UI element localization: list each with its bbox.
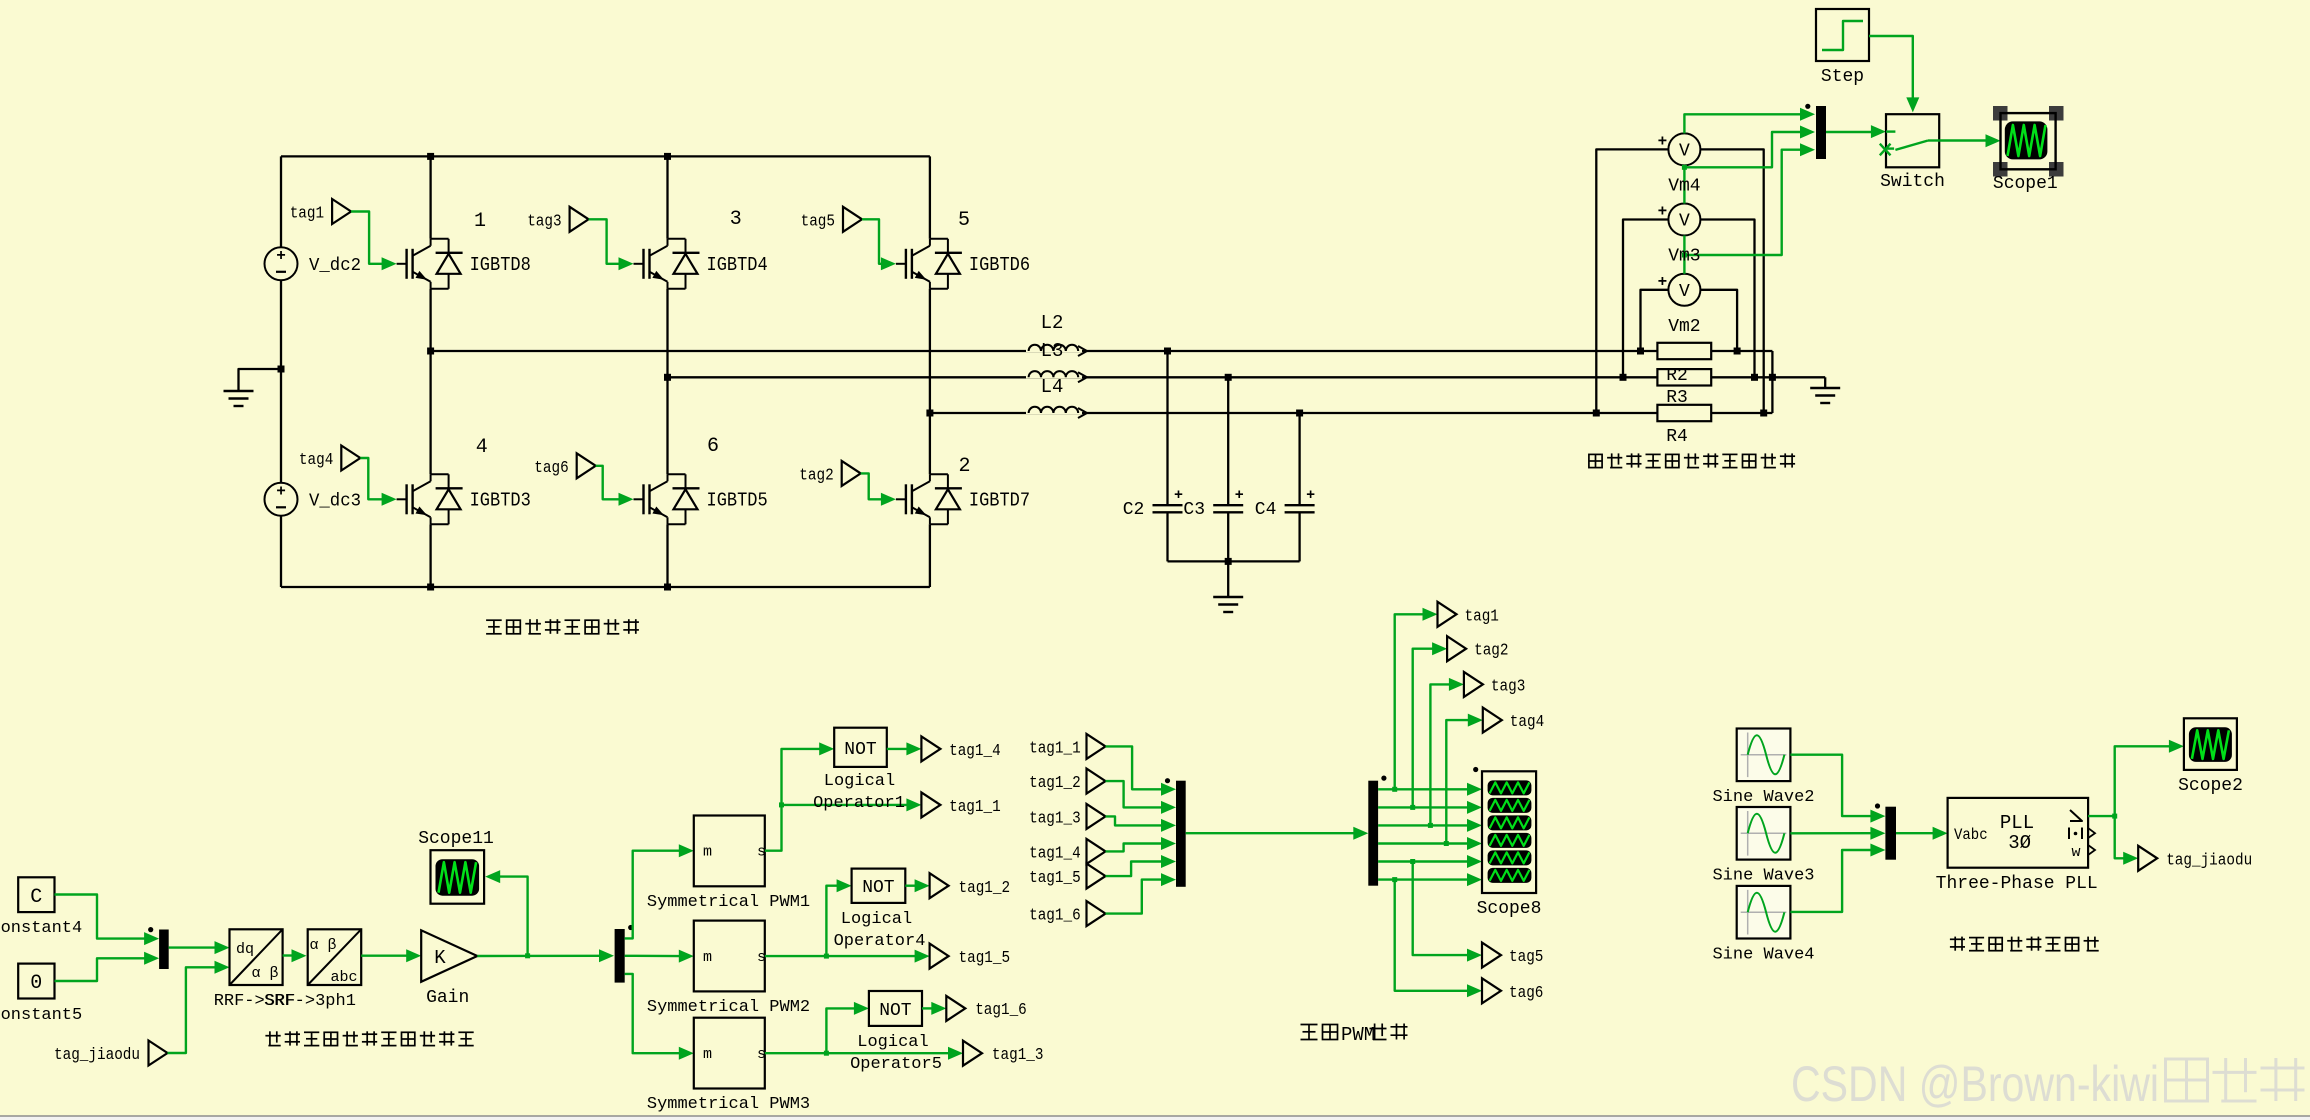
svg-text:Operator1: Operator1 <box>813 794 905 813</box>
svg-text:tag5: tag5 <box>1509 948 1543 967</box>
wire Gain to demux with Scope11 branch <box>477 870 614 962</box>
svg-text:IGBTD7: IGBTD7 <box>969 489 1030 511</box>
svg-text:Vm3: Vm3 <box>1668 247 1700 267</box>
transistor IGBTD4 (IGBT with antiparallel diode) <box>634 239 768 289</box>
wire C4 upper lead <box>1298 413 1300 505</box>
svg-text:Logical: Logical <box>857 1033 928 1052</box>
scope Scope11 <box>418 829 494 904</box>
svg-text:m: m <box>703 844 712 861</box>
svg-text:NOT: NOT <box>844 740 877 760</box>
wire NOT4 to tag1_2 <box>905 879 929 892</box>
wire leg A lower <box>429 524 431 587</box>
svg-text:tag1: tag1 <box>290 205 324 224</box>
wire demux to scope8 line 2 <box>1378 801 1482 814</box>
node Vm2 positive tap <box>1637 348 1644 355</box>
svg-text:C3: C3 <box>1183 500 1205 520</box>
wire demux to scope8 line 4 <box>1378 837 1482 850</box>
goto tag tag1_3 <box>963 1041 1044 1066</box>
demux three phase reference <box>615 929 625 983</box>
logic block NOT Logical Operator4 <box>834 869 926 951</box>
wire RRF-SRF to SRF-3ph <box>283 949 307 962</box>
transistor IGBTD3 (IGBT with antiparallel diode) <box>397 474 531 524</box>
wire Vm2 positive lead <box>1641 290 1669 351</box>
svg-text:CSDN @Brown-kiwi: CSDN @Brown-kiwi <box>1791 1056 2159 1112</box>
node bottom rail leg B junction <box>664 584 671 591</box>
ground capacitor bank <box>1213 597 1243 612</box>
voltmeter Vm2 <box>1658 273 1701 306</box>
wire tag1_2 to pwm mux <box>1106 781 1177 814</box>
from tag tag1_4 <box>1029 839 1105 864</box>
svg-text:1: 1 <box>474 210 486 233</box>
svg-text:L2: L2 <box>1041 312 1064 334</box>
label pulse number 1 for IGBTD8 <box>474 210 486 233</box>
wire gate drive tag5 to IGBT <box>862 219 896 270</box>
node capacitor C3 tap <box>1225 374 1232 381</box>
goto tag tag4 <box>1483 708 1544 733</box>
from tag tag2 (gate pulse source) <box>799 461 860 486</box>
svg-text:tag1_2: tag1_2 <box>959 879 1011 898</box>
node annotation dot above dq mux <box>148 927 153 932</box>
svg-text:IGBTD5: IGBTD5 <box>707 489 768 511</box>
from tag tag6 (gate pulse source) <box>534 453 595 478</box>
wire phase B after R3 <box>1711 376 1825 378</box>
wire gate drive tag6 to IGBT <box>596 466 634 506</box>
goto tag tag1_5 <box>930 944 1011 969</box>
source block Sine Wave4 <box>1712 886 1814 964</box>
svg-text:Logical: Logical <box>841 910 912 929</box>
label resistor R3 <box>1666 388 1688 408</box>
svg-text:Symmetrical PWM3: Symmetrical PWM3 <box>647 1095 810 1114</box>
svg-text:Sine Wave3: Sine Wave3 <box>1712 866 1814 885</box>
wire gate drive tag4 to IGBT <box>360 458 396 506</box>
inductor L4 <box>1026 376 1087 418</box>
node bottom rail leg A junction <box>427 584 434 591</box>
svg-text:L4: L4 <box>1041 376 1064 398</box>
resistor R4 <box>1657 405 1711 421</box>
svg-text:+: + <box>1235 487 1244 504</box>
wire leg C mid <box>929 289 931 475</box>
wire left DC rail middle <box>280 280 282 483</box>
svg-text:Operator4: Operator4 <box>834 932 926 951</box>
wire mux to RRF-SRF <box>169 941 230 954</box>
from tag tag1_3 <box>1029 804 1105 829</box>
gain block Gain K <box>421 930 477 1008</box>
svg-text:s: s <box>757 1046 766 1063</box>
svg-text:+: + <box>1306 487 1315 504</box>
subsystem block Symmetrical PWM2 <box>647 921 810 1018</box>
node annotation dot demux <box>628 925 633 930</box>
logic block NOT Logical Operator5 <box>850 991 942 1074</box>
wire gate drive tag3 to IGBT <box>589 219 634 270</box>
svg-text:Scope1: Scope1 <box>1993 174 2058 194</box>
svg-text:tag2: tag2 <box>1474 642 1508 661</box>
node Vm3 positive tap <box>1620 374 1627 381</box>
inductor L3 <box>1026 340 1087 382</box>
scope Scope2 <box>2178 718 2243 796</box>
svg-text:L3: L3 <box>1041 340 1064 362</box>
svg-text:+: + <box>1658 203 1668 221</box>
label voltmeter Vm2 <box>1668 317 1700 337</box>
svg-text:SRF->3ph1: SRF->3ph1 <box>264 992 356 1011</box>
svg-text:IGBTD8: IGBTD8 <box>470 254 531 276</box>
label voltmeter Vm4 <box>1668 176 1700 196</box>
wire mux to Switch <box>1826 125 1886 138</box>
block Three-Phase PLL <box>1936 798 2098 894</box>
block SRF-3ph1 (alpha-beta to abc) <box>264 929 361 1011</box>
wire capacitor common rail <box>1168 560 1300 562</box>
svg-text:IGBTD6: IGBTD6 <box>969 254 1030 276</box>
wire PLL output with branches <box>2088 740 2184 865</box>
svg-text:tag6: tag6 <box>1509 984 1543 1003</box>
svg-text:m: m <box>703 949 712 966</box>
svg-text:3: 3 <box>730 208 742 231</box>
node Vm4 positive tap <box>1593 410 1600 417</box>
node annotation dot above pwm mux <box>1165 778 1170 783</box>
goto tag tag5 <box>1482 943 1543 968</box>
wire Vm3 negative lead <box>1700 220 1754 378</box>
wire neutral to ground <box>1824 377 1826 388</box>
from tag tag3 (gate pulse source) <box>527 207 588 232</box>
svg-text:R4: R4 <box>1666 427 1688 447</box>
svg-text:IGBTD3: IGBTD3 <box>470 489 531 511</box>
svg-text:4: 4 <box>476 436 488 459</box>
capacitor C3 <box>1183 487 1243 520</box>
transistor IGBTD7 (IGBT with antiparallel diode) <box>896 474 1030 524</box>
node capacitor C4 tap <box>1296 410 1303 417</box>
svg-text:Constant4: Constant4 <box>0 919 82 938</box>
wire left DC rail lower <box>280 516 282 587</box>
svg-text:tag1_5: tag1_5 <box>959 949 1011 968</box>
svg-text:+: + <box>1658 132 1668 150</box>
node top rail leg B junction <box>664 153 671 160</box>
node Vm2 negative tap <box>1734 348 1741 355</box>
wire demux to scope8 line 1 <box>1378 783 1482 796</box>
svg-text:tag_jiaodu: tag_jiaodu <box>2166 852 2252 871</box>
svg-text:Gain: Gain <box>426 988 469 1008</box>
svg-text:+: + <box>1658 273 1668 291</box>
label pulse number 3 for IGBTD4 <box>730 208 742 231</box>
transistor IGBTD5 (IGBT with antiparallel diode) <box>634 474 768 524</box>
svg-text:tag1_3: tag1_3 <box>1029 809 1081 828</box>
node annotation dot above mux <box>1805 104 1810 109</box>
svg-text:C4: C4 <box>1255 500 1277 520</box>
wire C4 lower lead <box>1298 512 1300 561</box>
voltmeter Vm4 <box>1658 132 1701 165</box>
block Constant4 <box>0 877 82 938</box>
node phase A tap at leg A <box>427 348 434 355</box>
wire Constant4 to mux <box>55 895 160 946</box>
mux dq reference <box>159 930 169 970</box>
wire tag1_1 to pwm mux <box>1106 746 1177 795</box>
wire leg C lower <box>929 524 931 587</box>
wire NOT5 to tag1_6 <box>922 1002 946 1015</box>
svg-text:Scope2: Scope2 <box>2178 776 2243 796</box>
svg-text:α β: α β <box>251 965 278 982</box>
wire demux to scope8 line 3 <box>1378 819 1482 832</box>
svg-text:tag1_5: tag1_5 <box>1029 869 1081 888</box>
goto tag tag1_1 <box>921 792 1000 817</box>
svg-text:tag5: tag5 <box>801 212 835 231</box>
from tag tag1_2 <box>1029 769 1105 794</box>
wire gate drive tag1 to IGBT <box>351 212 397 271</box>
wire C3 upper lead <box>1227 377 1229 505</box>
wire branch to tag3 <box>1430 678 1464 826</box>
wire leg A mid <box>429 289 431 475</box>
svg-text:α β: α β <box>309 937 336 954</box>
svg-text:tag1_4: tag1_4 <box>949 742 1001 761</box>
svg-text:dq: dq <box>236 941 254 958</box>
wire phase A after R2 <box>1711 350 1772 352</box>
from tag tag1_6 <box>1029 901 1105 926</box>
wire branch to tag5 <box>1413 862 1482 962</box>
wire phase B output <box>668 376 1658 378</box>
label pulse number 4 for IGBTD3 <box>476 436 488 459</box>
wire left DC rail upper <box>280 156 282 247</box>
watermark CSDN <box>1791 1056 2305 1112</box>
node phase C tap at leg C <box>926 410 933 417</box>
svg-text:tag1_4: tag1_4 <box>1029 844 1081 863</box>
node annotation dot above pll mux <box>1875 803 1880 808</box>
svg-text:Sine Wave2: Sine Wave2 <box>1712 788 1814 807</box>
wire PWM2 output with branches <box>765 879 930 962</box>
svg-text:abc: abc <box>330 969 357 986</box>
svg-text:w: w <box>2071 844 2080 861</box>
demux pwm signals <box>1368 781 1378 886</box>
wire leg B lower <box>666 524 668 587</box>
wire phase A output <box>431 350 1658 352</box>
subsystem block Symmetrical PWM1 <box>647 816 810 913</box>
ground left DC midpoint <box>224 391 254 406</box>
wire demux to scope8 line 5 <box>1378 855 1482 868</box>
wire PWM1 output with branches <box>765 742 922 850</box>
wire pll mux to Three-Phase PLL <box>1896 827 1948 840</box>
mux pwm signals <box>1176 781 1186 887</box>
wire Vm4 negative lead <box>1700 149 1763 413</box>
svg-text:s: s <box>757 949 766 966</box>
svg-text:s: s <box>757 844 766 861</box>
wire Step to Switch <box>1869 36 1919 112</box>
voltage source V_dc3 <box>265 482 362 516</box>
svg-text:PWM: PWM <box>1341 1024 1375 1046</box>
svg-text:Operator5: Operator5 <box>850 1055 942 1074</box>
wire branch to tag4 <box>1446 714 1483 844</box>
goto tag tag1_2 <box>930 873 1011 898</box>
node neutral-phaseB junction <box>1769 374 1776 381</box>
wire branch to tag1 <box>1395 608 1438 790</box>
svg-text:m: m <box>703 1046 712 1063</box>
wire tag_jiaodu to RRF-SRF <box>168 961 230 1053</box>
svg-text:K: K <box>434 947 446 969</box>
svg-text:0: 0 <box>30 972 42 995</box>
svg-text:V: V <box>1679 212 1690 232</box>
node capacitor neutral junction <box>1225 558 1232 565</box>
goto tag tag2 <box>1447 636 1508 661</box>
caption PLL generates rotation angle <box>1950 937 2099 951</box>
from tag tag4 (gate pulse source) <box>299 446 360 471</box>
wire tag1_6 to pwm mux <box>1106 873 1177 914</box>
svg-text:Switch: Switch <box>1880 172 1945 192</box>
wire C3 lower lead <box>1227 512 1229 561</box>
wire demux out1 to PWM1 <box>625 844 694 938</box>
label resistor R2 <box>1666 366 1688 386</box>
svg-text:tag6: tag6 <box>534 459 568 478</box>
wire star neutral vertical <box>1771 351 1773 413</box>
node top rail leg A junction <box>427 153 434 160</box>
wire NOT1 to tag1_4 <box>887 742 922 755</box>
wire PWM3 output with branches <box>765 1002 963 1060</box>
mux voltage signals <box>1816 106 1826 159</box>
svg-text:Three-Phase PLL: Three-Phase PLL <box>1936 874 2098 894</box>
node phase B tap at leg B <box>664 374 671 381</box>
wire phase C output <box>930 412 1658 414</box>
wire leg B upper <box>666 156 668 238</box>
wire C2 upper lead <box>1166 351 1168 505</box>
svg-text:NOT: NOT <box>862 878 895 898</box>
wire Vm4 signal to mux input 1 <box>1684 108 1815 134</box>
wire Switch to Scope1 <box>1939 134 2000 147</box>
svg-text:tag1_6: tag1_6 <box>1029 907 1081 926</box>
goto tag tag_jiaodu <box>2138 846 2252 871</box>
goto tag tag1 <box>1438 602 1499 627</box>
window bottom edge strip <box>0 1116 2310 1120</box>
logic block NOT Logical Operator1 <box>813 728 905 813</box>
wire branch to tag6 <box>1395 880 1482 998</box>
svg-text:Scope8: Scope8 <box>1477 899 1542 919</box>
wire pwm mux to demux <box>1186 827 1369 840</box>
svg-text:IGBTD4: IGBTD4 <box>707 254 768 276</box>
svg-text:Scope11: Scope11 <box>418 829 494 849</box>
svg-text:V_dc2: V_dc2 <box>309 256 361 276</box>
wire Vm4 positive lead <box>1596 149 1668 413</box>
svg-text:tag4: tag4 <box>1510 713 1544 732</box>
svg-text:+: + <box>276 247 286 265</box>
svg-text:3Ø: 3Ø <box>2008 832 2031 854</box>
wire tag1_3 to pwm mux <box>1106 816 1177 832</box>
caption three-phase inverter main circuit <box>486 619 639 634</box>
wire C2 lower lead <box>1166 512 1168 561</box>
svg-text:tag_jiaodu: tag_jiaodu <box>54 1046 140 1065</box>
scope Scope1 (selected) <box>1993 106 2064 194</box>
node Vm4 negative tap <box>1760 410 1767 417</box>
svg-text:tag1_1: tag1_1 <box>949 798 1001 817</box>
source block Sine Wave2 <box>1712 729 1814 807</box>
voltage source V_dc2 <box>265 247 362 281</box>
svg-text:Sine Wave4: Sine Wave4 <box>1712 945 1814 964</box>
svg-text:tag2: tag2 <box>799 466 833 485</box>
svg-text:V_dc3: V_dc3 <box>309 491 361 511</box>
svg-text:C2: C2 <box>1123 500 1145 520</box>
wire demux out3 to PWM3 <box>625 974 694 1060</box>
svg-text:5: 5 <box>958 209 970 232</box>
wire tag1_4 to pwm mux <box>1106 837 1177 851</box>
wire gate drive tag2 to IGBT <box>861 473 896 505</box>
node DC midpoint junction <box>278 366 285 373</box>
label pulse number 5 for IGBTD6 <box>958 209 970 232</box>
subsystem block Symmetrical PWM3 <box>647 1018 810 1114</box>
from tag tag1 (gate pulse source) <box>290 199 351 224</box>
caption observe inverter output waveform <box>1589 453 1795 467</box>
svg-text:Constant5: Constant5 <box>0 1006 82 1025</box>
block Step <box>1816 9 1869 87</box>
from tag tag1_1 <box>1029 734 1105 759</box>
svg-text:PLL: PLL <box>2000 812 2034 834</box>
capacitor C2 <box>1123 487 1183 520</box>
svg-text:V: V <box>1679 282 1690 302</box>
capacitor C4 <box>1255 487 1315 520</box>
ground load neutral <box>1810 388 1840 403</box>
wire Sine Wave2 to pll mux <box>1790 755 1885 823</box>
wire Vm3 positive lead <box>1623 220 1668 378</box>
wire Sine Wave3 to pll mux <box>1790 827 1885 840</box>
label voltmeter Vm3 <box>1668 247 1700 267</box>
scope Scope8 <box>1477 771 1542 919</box>
svg-text:tag3: tag3 <box>527 212 561 231</box>
svg-text:tag1_3: tag1_3 <box>992 1046 1044 1065</box>
wire bottom DC bus rail <box>281 586 930 588</box>
svg-text:tag1_6: tag1_6 <box>975 1001 1027 1020</box>
svg-text:tag1: tag1 <box>1465 607 1499 626</box>
svg-text:+: + <box>276 482 286 500</box>
wire to left ground <box>239 369 282 391</box>
wire Vm2 negative lead <box>1700 290 1737 351</box>
wire Vm3-Vm2 chain with branch to mux input 3 <box>1682 143 1815 274</box>
goto tag tag1_6 <box>946 996 1027 1021</box>
label pulse number 6 for IGBTD5 <box>707 435 719 458</box>
node annotation dot above pwm demux <box>1381 776 1386 781</box>
caption observe PWM waveform <box>1301 1024 1408 1047</box>
block Switch <box>1880 114 1945 192</box>
resistor R3 <box>1657 369 1711 385</box>
svg-text:Vm4: Vm4 <box>1668 176 1700 196</box>
wire Vm4-Vm3 chain with branch to mux input 2 <box>1682 126 1815 204</box>
block RRF-SRF (dq to alpha-beta) <box>214 929 296 1011</box>
wire leg C upper <box>929 156 931 238</box>
wire demux out2 to PWM2 <box>625 950 694 963</box>
mux pll input <box>1885 807 1896 860</box>
from tag tag5 (gate pulse source) <box>801 207 862 232</box>
wire capacitor neutral to ground <box>1227 561 1229 597</box>
transistor IGBTD6 (IGBT with antiparallel diode) <box>896 239 1030 289</box>
goto tag tag6 <box>1482 978 1543 1003</box>
voltmeter Vm3 <box>1658 203 1701 236</box>
wire SRF-3ph to Gain <box>361 949 421 962</box>
svg-text:Logical: Logical <box>824 772 895 791</box>
goto tag tag3 <box>1464 672 1525 697</box>
wire phase C after R4 <box>1711 412 1772 414</box>
svg-text:Symmetrical PWM1: Symmetrical PWM1 <box>647 893 810 912</box>
from tag tag_jiaodu (rotation angle) <box>54 1041 168 1066</box>
inductor L2 <box>1026 312 1087 356</box>
transistor IGBTD8 (IGBT with antiparallel diode) <box>397 239 531 289</box>
svg-text:tag1_1: tag1_1 <box>1029 739 1081 758</box>
wire demux to scope8 line 6 <box>1378 873 1482 886</box>
source block Sine Wave3 <box>1712 807 1814 885</box>
resistor R2 <box>1657 343 1711 359</box>
node Vm3 negative tap <box>1751 374 1758 381</box>
svg-text:tag3: tag3 <box>1491 677 1525 696</box>
wire Sine Wave4 to pll mux <box>1790 844 1885 912</box>
wire top DC bus rail <box>281 155 930 157</box>
svg-text:NOT: NOT <box>879 1001 912 1021</box>
block Constant5 <box>0 964 82 1025</box>
svg-text:tag1_2: tag1_2 <box>1029 774 1081 793</box>
svg-text:Vm2: Vm2 <box>1668 317 1700 337</box>
from tag tag1_5 <box>1029 864 1105 889</box>
svg-text:R2: R2 <box>1666 366 1688 386</box>
caption park inverse open loop control <box>265 1031 473 1045</box>
wire branch to tag2 <box>1413 642 1447 807</box>
svg-text:2: 2 <box>958 455 970 478</box>
